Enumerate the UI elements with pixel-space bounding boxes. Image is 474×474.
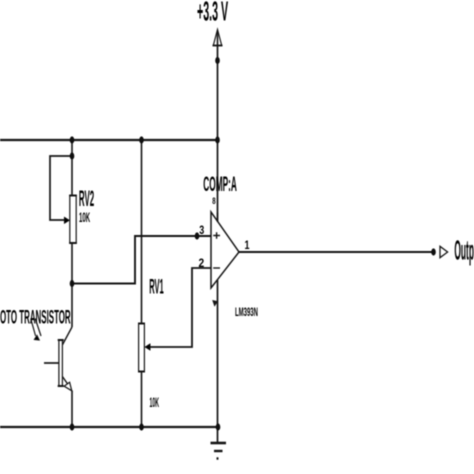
- svg-text:3: 3: [199, 225, 204, 237]
- svg-text:8: 8: [212, 196, 216, 207]
- svg-text:1: 1: [245, 240, 250, 252]
- svg-text:PHOTO TRANSISTOR: PHOTO TRANSISTOR: [0, 308, 71, 329]
- svg-text:LM393N: LM393N: [235, 306, 258, 319]
- svg-text:RV2: RV2: [79, 186, 94, 211]
- svg-text:COMP:A: COMP:A: [203, 173, 237, 197]
- svg-text:2: 2: [199, 257, 205, 270]
- svg-text:10K: 10K: [150, 396, 160, 411]
- svg-text:Output: Output: [454, 235, 474, 266]
- svg-text:10K: 10K: [79, 210, 90, 226]
- svg-text:RV1: RV1: [149, 276, 164, 299]
- svg-text:+3.3 V: +3.3 V: [197, 0, 228, 27]
